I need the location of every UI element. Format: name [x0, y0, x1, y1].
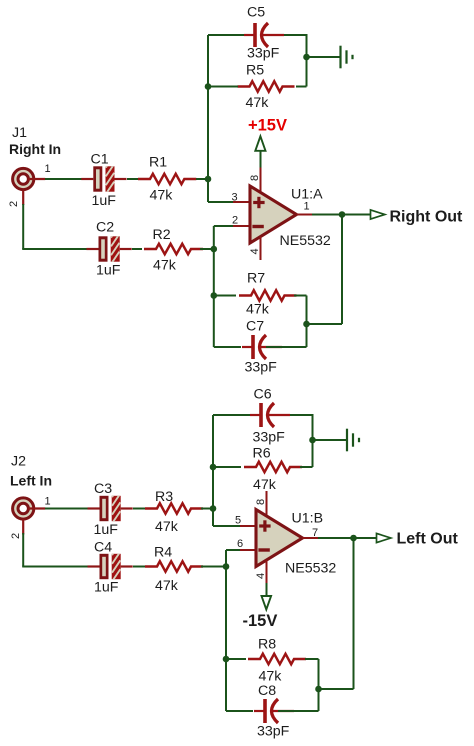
- wire output to port (lower): [318, 537, 377, 539]
- wire J1 to C1: [45, 178, 83, 180]
- node dot R1 output: [205, 176, 212, 183]
- wire feedback up to output: [341, 215, 343, 325]
- wire feedback branch (lower): [319, 688, 354, 690]
- resistor R5: [238, 81, 295, 91]
- svg-text:4: 4: [249, 248, 261, 254]
- node dot R3 output: [210, 505, 217, 512]
- resistor R3: [145, 503, 203, 513]
- node dot R6-left rail: [210, 464, 217, 471]
- svg-text:1uF: 1uF: [94, 522, 119, 538]
- wire J1 pin2 down: [22, 204, 24, 249]
- wire R6 left: [213, 466, 241, 468]
- svg-text:1: 1: [304, 201, 310, 213]
- wire bottom to C2: [22, 248, 87, 250]
- capacitor C8: [254, 699, 294, 723]
- wire C6/R6 loop right rail: [312, 414, 314, 467]
- svg-text:-15V: -15V: [243, 612, 278, 630]
- resistor R6: [244, 462, 302, 472]
- wire to pin 5: [213, 525, 240, 527]
- pin 1 stub U1:A: [297, 214, 313, 216]
- wire R4 to node: [201, 566, 226, 568]
- wire R5 left: [208, 86, 238, 88]
- svg-text:Right Out: Right Out: [390, 209, 464, 226]
- pin 4 stub U1:B: [266, 560, 268, 583]
- node dot R7 left: [211, 292, 218, 299]
- wire R2 to node: [200, 248, 214, 250]
- wire C7 right: [266, 346, 307, 348]
- svg-text:R7: R7: [247, 271, 265, 287]
- wire C8 right: [278, 710, 319, 712]
- wire C4 to R4: [133, 566, 147, 568]
- pin 7 stub U1:B: [303, 537, 319, 539]
- svg-text:33pF: 33pF: [247, 46, 280, 62]
- svg-text:47k: 47k: [246, 302, 270, 318]
- wire C6 top left: [213, 414, 251, 416]
- wire C5 top right: [277, 34, 307, 36]
- wire R1 to rail: [196, 178, 208, 180]
- svg-text:6: 6: [237, 538, 243, 550]
- svg-text:NE5532: NE5532: [285, 561, 336, 577]
- ground (upper): [341, 46, 353, 69]
- pin 4 stub U1:A: [260, 237, 262, 261]
- capacitor C5: [244, 23, 284, 47]
- wire R8 right: [305, 658, 319, 660]
- svg-text:+15V: +15V: [248, 117, 287, 135]
- node dot R5-left rail: [205, 83, 212, 90]
- pin 8 stub U1:B: [266, 491, 268, 518]
- wire C6/R6 loop left rail: [212, 415, 214, 526]
- wire +15V stem: [260, 151, 262, 168]
- wire J2 to C3: [45, 508, 88, 510]
- svg-text:U1:B: U1:B: [292, 511, 324, 527]
- wire feedback branch (upper): [307, 323, 343, 325]
- svg-text:8: 8: [249, 175, 261, 181]
- svg-text:33pF: 33pF: [257, 724, 290, 740]
- svg-text:C2: C2: [96, 220, 114, 236]
- wire R3 to rail: [201, 508, 213, 510]
- svg-text:Right In: Right In: [9, 141, 61, 157]
- svg-text:8: 8: [255, 499, 267, 505]
- svg-text:47k: 47k: [155, 519, 179, 535]
- svg-text:R3: R3: [155, 489, 173, 505]
- wire feedback up to output (lower): [353, 538, 355, 689]
- node dot ground tap (lower): [309, 437, 316, 444]
- svg-text:C4: C4: [94, 540, 112, 556]
- wire C7 left: [214, 346, 241, 348]
- svg-text:NE5532: NE5532: [280, 233, 331, 249]
- connector J2: [13, 498, 46, 535]
- svg-text:47k: 47k: [155, 578, 179, 594]
- svg-text:J2: J2: [11, 454, 26, 470]
- wire C2 to R2: [132, 248, 142, 250]
- port Left Out arrow: [377, 533, 391, 542]
- node dot feedback (upper): [303, 321, 310, 328]
- capacitor C1: [81, 155, 126, 194]
- capacitor C7: [242, 335, 282, 359]
- wire C6 top right: [283, 414, 313, 416]
- svg-text:47k: 47k: [153, 258, 177, 274]
- svg-text:4: 4: [255, 573, 267, 579]
- wire inverting node rail (lower): [225, 550, 227, 711]
- svg-text:3: 3: [232, 192, 238, 204]
- power -15V arrow: [262, 596, 272, 610]
- svg-text:1uF: 1uF: [96, 263, 121, 279]
- wire to ground (lower): [313, 439, 347, 441]
- svg-text:1uF: 1uF: [92, 193, 117, 209]
- node dot output (lower): [350, 535, 357, 542]
- svg-text:Left In: Left In: [10, 473, 52, 489]
- wire to pin 6: [226, 549, 240, 551]
- power +15V arrow: [255, 136, 265, 151]
- wire C5/R5 loop right rail: [306, 34, 308, 87]
- node dot R8 left: [223, 656, 230, 663]
- capacitor C3: [88, 485, 133, 524]
- svg-text:1: 1: [45, 163, 51, 175]
- svg-text:C7: C7: [246, 319, 264, 335]
- svg-text:R8: R8: [258, 637, 276, 653]
- wire C8 left: [226, 710, 253, 712]
- svg-text:2: 2: [10, 533, 22, 539]
- wire J2 pin2 down: [22, 533, 24, 567]
- resistor R1: [138, 174, 196, 184]
- wire to pin 3: [208, 201, 233, 203]
- svg-text:C1: C1: [91, 152, 109, 168]
- svg-text:7: 7: [312, 527, 318, 539]
- wire R7 left: [214, 295, 236, 297]
- wire inverting node rail: [213, 226, 215, 347]
- svg-text:Left Out: Left Out: [397, 531, 459, 548]
- capacitor C4: [88, 543, 133, 582]
- svg-text:R6: R6: [253, 446, 271, 462]
- op-amp U1:A: [250, 186, 297, 243]
- node dot R4 output: [223, 563, 230, 570]
- wire C3 to R3: [133, 508, 147, 510]
- connector J1: [13, 168, 46, 205]
- resistor R7: [239, 290, 297, 300]
- wire feedback right rail (lower): [318, 659, 320, 711]
- capacitor C6: [250, 403, 290, 427]
- op-amp U1:B: [256, 510, 303, 567]
- wire output to port (upper): [312, 214, 371, 216]
- wire feedback right rail (upper): [306, 296, 308, 348]
- svg-text:C5: C5: [247, 5, 265, 21]
- pin 2 stub U1:A: [233, 225, 250, 227]
- wire -15V stem: [266, 583, 268, 596]
- svg-text:1uF: 1uF: [94, 580, 119, 596]
- svg-text:C3: C3: [94, 481, 112, 497]
- wire C5 top left: [208, 34, 245, 36]
- pin 5 stub U1:B: [240, 525, 256, 527]
- svg-text:R5: R5: [246, 63, 264, 79]
- svg-text:5: 5: [235, 515, 241, 527]
- port Right Out arrow: [371, 210, 385, 219]
- wire bottom to C4: [22, 566, 88, 568]
- wire R6 right: [300, 466, 313, 468]
- svg-text:47k: 47k: [246, 95, 270, 111]
- svg-text:33pF: 33pF: [253, 430, 286, 446]
- node dot ground tap (upper): [303, 54, 310, 61]
- resistor R2: [144, 244, 203, 254]
- svg-text:47k: 47k: [150, 188, 174, 204]
- capacitor C2: [87, 225, 132, 264]
- wire C5/R5 loop left rail: [207, 35, 209, 202]
- svg-text:C8: C8: [258, 683, 276, 699]
- svg-text:R1: R1: [149, 155, 167, 171]
- pin 3 stub U1:A: [233, 201, 250, 203]
- svg-text:33pF: 33pF: [245, 360, 278, 376]
- svg-text:J1: J1: [12, 125, 27, 141]
- node dot R2 output: [211, 246, 218, 253]
- node dot feedback (lower): [315, 686, 322, 693]
- svg-text:2: 2: [232, 215, 238, 227]
- resistor R4: [145, 561, 203, 571]
- pin 8 stub U1:A: [260, 168, 262, 197]
- wire to ground (upper): [307, 56, 340, 58]
- resistor R8: [248, 654, 306, 664]
- pin 6 stub U1:B: [240, 549, 256, 551]
- svg-text:C6: C6: [254, 387, 272, 403]
- svg-text:R4: R4: [154, 545, 172, 561]
- svg-text:1: 1: [45, 496, 51, 508]
- svg-text:2: 2: [8, 201, 20, 207]
- wire R8 left: [226, 658, 246, 660]
- svg-text:R2: R2: [153, 227, 171, 243]
- wire to pin 2: [214, 225, 233, 227]
- node dot output (upper): [339, 211, 346, 218]
- ground (lower): [347, 429, 359, 452]
- wire R7 right: [294, 295, 307, 297]
- svg-text:47k: 47k: [253, 477, 277, 493]
- wire R5 right: [296, 86, 307, 88]
- wire C1 to R1: [127, 178, 139, 180]
